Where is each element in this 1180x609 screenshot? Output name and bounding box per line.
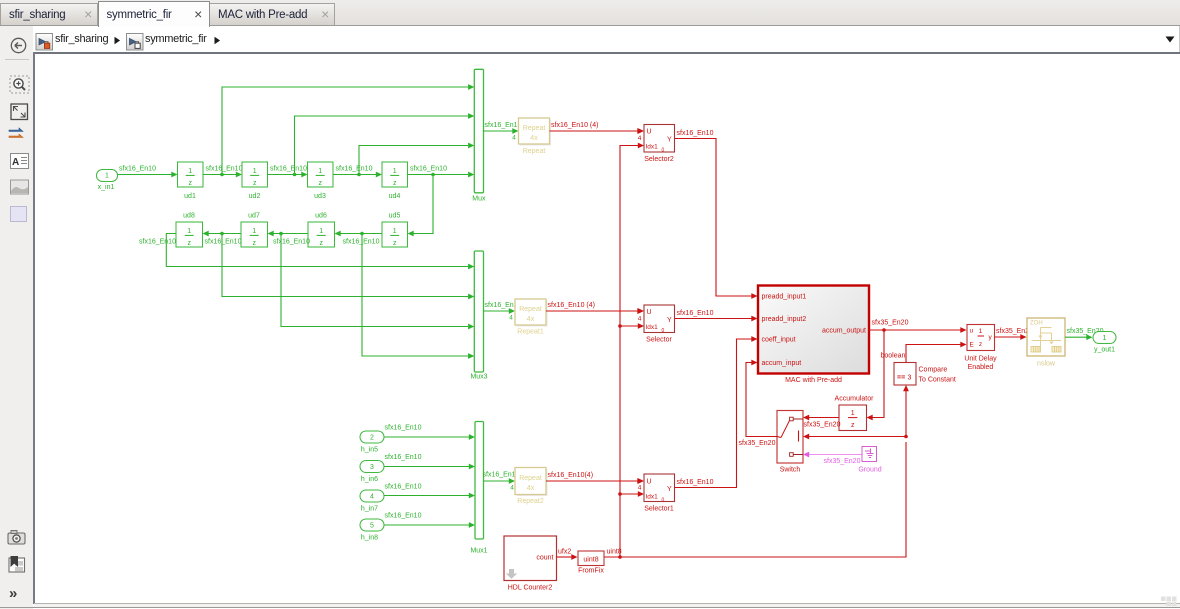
- svg-text:sfx16_En10: sfx16_En10: [483, 472, 520, 479]
- toolbar separator: [5, 59, 29, 61]
- svg-text:1: 1: [253, 168, 257, 175]
- svg-text:Y: Y: [667, 137, 672, 144]
- svg-text:ud6: ud6: [315, 213, 327, 220]
- svg-text:1: 1: [393, 228, 397, 235]
- svg-text:Mux1: Mux1: [470, 548, 487, 555]
- svg-text:1: 1: [105, 173, 109, 180]
- svg-text:Unit Delay: Unit Delay: [964, 356, 997, 363]
- svg-text:h_in6: h_in6: [361, 476, 378, 483]
- wire Selector1 output to MAC coeff_input: [675, 336, 758, 487]
- svg-text:1: 1: [319, 228, 323, 235]
- svg-text:Y: Y: [667, 486, 672, 493]
- unit delay ud3: [308, 162, 334, 200]
- unit delay ud8: [176, 213, 203, 248]
- svg-text:3: 3: [908, 375, 912, 382]
- wire ud6 to ud7: [268, 231, 311, 246]
- svg-text:Idx1: Idx1: [646, 144, 659, 151]
- svg-text:ufx2: ufx2: [558, 549, 571, 556]
- wire HDL Counter2 to FromFix: [557, 549, 578, 560]
- ground block Ground: [858, 447, 881, 474]
- svg-text:sfx16_En10: sfx16_En10: [270, 166, 307, 173]
- switch block Switch: [777, 411, 803, 474]
- svg-text:Mux: Mux: [472, 196, 486, 203]
- svg-text:count: count: [536, 555, 553, 562]
- wire count index bus vertical: [620, 146, 638, 558]
- svg-text:z: z: [851, 422, 855, 429]
- wire Repeat1 to Selector: [546, 302, 644, 314]
- svg-text:accum_output: accum_output: [822, 328, 866, 335]
- svg-text:sfx16_En10: sfx16_En10: [677, 130, 714, 137]
- input port h_in6: [360, 461, 384, 484]
- accumulator block Accumulator: [835, 396, 875, 431]
- svg-text:HDL Counter2: HDL Counter2: [508, 585, 553, 592]
- junction tap after ud4: [431, 173, 435, 177]
- svg-text:4: 4: [638, 485, 642, 492]
- wire accum_output down to Accumulator: [867, 330, 885, 420]
- svg-text:z: z: [393, 240, 397, 247]
- mux Mux: [472, 69, 486, 202]
- svg-text:z: z: [188, 180, 192, 187]
- svg-text:4x: 4x: [530, 135, 538, 142]
- svg-text:1: 1: [851, 410, 855, 417]
- breadcrumb arrow 1: [115, 37, 121, 44]
- unit delay ud4: [382, 162, 408, 200]
- wire tap3 up to Mux input 3: [359, 143, 474, 175]
- svg-text:Repeat: Repeat: [523, 148, 546, 155]
- mux Mux3: [470, 251, 487, 381]
- repeat block Repeat: [519, 118, 552, 155]
- breadcrumb text sfir_sharing: [55, 33, 108, 45]
- wire h_in7 to Mux1 input 3: [384, 484, 475, 499]
- breadcrumb model icon 2: [127, 34, 144, 51]
- canvas top border: [33, 52, 1180, 54]
- svg-text:sfx16_En10 (4): sfx16_En10 (4): [548, 302, 595, 309]
- wire tap down to Mux3 input 4: [362, 234, 474, 359]
- repeat block Repeat2: [515, 468, 548, 506]
- toolbar camera icon: [8, 531, 25, 545]
- toolbar back button: [11, 38, 25, 52]
- svg-text:3: 3: [370, 464, 374, 471]
- subsystem MAC with Pre-add: [758, 286, 869, 385]
- svg-text:ud5: ud5: [389, 213, 401, 220]
- svg-text:»: »: [9, 585, 17, 602]
- svg-text:uint8: uint8: [583, 557, 598, 564]
- svg-text:4: 4: [510, 485, 514, 492]
- svg-text:z: z: [319, 240, 323, 247]
- svg-text:sfx35_En20: sfx35_En20: [824, 458, 861, 465]
- svg-text:U: U: [647, 129, 652, 136]
- wire h_in5 to Mux1 input 1: [384, 425, 475, 440]
- svg-text:4: 4: [638, 316, 642, 323]
- svg-text:Mux3: Mux3: [470, 374, 487, 381]
- junction tap after ud3: [357, 173, 361, 177]
- wire ud8 output to Mux3 input 1: [139, 234, 474, 270]
- svg-text:sfx16_En10: sfx16_En10: [677, 479, 714, 486]
- svg-text:sfx16_En10: sfx16_En10: [677, 310, 714, 317]
- svg-text:4: 4: [370, 494, 374, 501]
- svg-text:z: z: [979, 341, 982, 348]
- svg-text:Selector2: Selector2: [644, 156, 674, 163]
- wire Accumulator to Switch input 1: [803, 415, 841, 429]
- junction accum_output: [882, 328, 886, 332]
- breadcrumb dropdown arrow: [1166, 37, 1175, 43]
- unit delay ud7: [241, 213, 268, 248]
- window bottom border: [0, 607, 1180, 608]
- svg-text:0: 0: [662, 498, 665, 504]
- svg-text:z: z: [253, 180, 257, 187]
- svg-text:ud4: ud4: [389, 193, 401, 200]
- input port x_in1: [97, 170, 118, 192]
- breadcrumb model icon 1: [36, 34, 53, 51]
- svg-text:1: 1: [318, 168, 322, 175]
- svg-text:sfx16_En10(4): sfx16_En10(4): [548, 472, 594, 479]
- toolbar fit-to-view icon: [11, 104, 28, 120]
- wire count to Switch control input: [803, 434, 906, 440]
- breadcrumb bar: [33, 26, 1180, 52]
- active tab symmetric_fir: [98, 1, 210, 27]
- svg-text:sfx16_En10: sfx16_En10: [205, 239, 242, 246]
- svg-text:FromFix: FromFix: [578, 568, 604, 575]
- wire nslow to y_out1: [1065, 328, 1104, 340]
- selector Selector: [638, 305, 675, 344]
- wire x_in1 to ud1: [118, 166, 178, 178]
- resize grip: [1161, 597, 1177, 607]
- wire Switch output to MAC accum_input: [739, 360, 778, 447]
- wire Repeat2 to Selector1: [546, 472, 644, 484]
- svg-text:4x: 4x: [527, 485, 535, 492]
- svg-text:h_in7: h_in7: [361, 506, 378, 513]
- svg-text:sfx16_En10: sfx16_En10: [119, 166, 156, 173]
- svg-text:1: 1: [188, 168, 192, 175]
- svg-text:ud1: ud1: [184, 193, 196, 200]
- wire Mux output to Repeat: [484, 122, 522, 142]
- svg-text:Selector: Selector: [646, 337, 672, 344]
- wire count from FromFix: [604, 442, 906, 557]
- unit delay ud2: [242, 162, 268, 200]
- svg-text:Repeat1: Repeat1: [517, 329, 544, 336]
- svg-text:sfx35_En20: sfx35_En20: [739, 440, 776, 447]
- converter block FromFix: [578, 551, 604, 575]
- tab bar: [0, 0, 1180, 26]
- svg-text:ud7: ud7: [248, 213, 260, 220]
- wire h_in8 to Mux1 input 4: [384, 513, 475, 528]
- svg-text:MAC with Pre-add: MAC with Pre-add: [785, 377, 842, 384]
- svg-text:1: 1: [1103, 335, 1107, 342]
- unit delay ud6: [308, 213, 335, 248]
- rate transition block nslow: [1027, 318, 1065, 368]
- junction count at switch branch: [904, 435, 908, 439]
- junction idx Selector1: [618, 492, 622, 496]
- svg-text:U: U: [647, 479, 652, 486]
- wire accum_output to Unit Delay Enabled: [869, 320, 967, 333]
- svg-text:accum_input: accum_input: [762, 360, 802, 367]
- wire Compare boolean to Unit Delay Enabled enable: [881, 342, 967, 363]
- canvas left border: [33, 52, 35, 604]
- svg-text:4: 4: [638, 135, 642, 142]
- junction tap between ud5 and ud6: [360, 232, 364, 236]
- svg-text:z: z: [318, 180, 322, 187]
- svg-text:sfx16_En10: sfx16_En10: [206, 166, 243, 173]
- unit delay ud5: [382, 213, 408, 248]
- unit delay enabled block: [964, 325, 997, 372]
- wire tap2 up to Mux input 2: [295, 113, 475, 174]
- svg-text:Enabled: Enabled: [968, 364, 994, 371]
- wire ud1 to ud2: [203, 166, 243, 178]
- svg-text:uint8: uint8: [607, 549, 622, 556]
- wire Mux1 output to Repeat2: [483, 472, 520, 492]
- svg-text:sfx16_En10: sfx16_En10: [273, 239, 310, 246]
- svg-text:sfx16_En10: sfx16_En10: [385, 454, 422, 461]
- input port h_in7: [360, 490, 384, 513]
- svg-text:nslow: nslow: [1037, 361, 1056, 368]
- tab MAC with Pre-add: [209, 3, 335, 25]
- selector Selector1: [638, 474, 675, 513]
- svg-text:sfx16_En10: sfx16_En10: [410, 166, 447, 173]
- svg-text:4x: 4x: [527, 316, 535, 323]
- svg-text:1: 1: [979, 328, 983, 335]
- svg-text:preadd_input1: preadd_input1: [762, 294, 807, 301]
- svg-text:E: E: [970, 342, 975, 349]
- svg-text:Repeat2: Repeat2: [517, 498, 544, 505]
- repeat block Repeat1: [515, 299, 548, 336]
- wire ud7 to ud8: [203, 231, 242, 246]
- svg-text:Ground: Ground: [858, 467, 881, 474]
- junction tap after ud2: [293, 173, 297, 177]
- wire Mux3 output to Repeat1: [484, 302, 522, 322]
- svg-text:4: 4: [512, 135, 516, 142]
- wire h_in6 to Mux1 input 2: [384, 454, 475, 469]
- wire tap down to Mux3 input 3: [281, 234, 474, 330]
- svg-text:Idx1: Idx1: [646, 324, 659, 331]
- svg-text:sfx35_En20: sfx35_En20: [872, 320, 909, 327]
- compare block Compare To Constant: [894, 363, 956, 386]
- toolbar update-diagram icon (two arrows): [9, 128, 23, 138]
- wire tap down to Mux3 input 2: [222, 234, 474, 300]
- svg-text:Repeat: Repeat: [519, 475, 542, 482]
- junction tap between ud7 and ud8: [220, 232, 224, 236]
- mux Mux1: [470, 422, 487, 555]
- svg-text:A: A: [12, 157, 19, 168]
- svg-text:sfx16_En10: sfx16_En10: [385, 513, 422, 520]
- tab sfir_sharing: [0, 3, 98, 25]
- svg-text:Compare: Compare: [919, 367, 948, 374]
- svg-text:4: 4: [509, 315, 513, 322]
- wire Repeat to Selector2: [550, 122, 644, 134]
- junction tap between ud6 and ud7: [279, 232, 283, 236]
- svg-text:z: z: [393, 180, 397, 187]
- svg-text:Y: Y: [667, 317, 672, 324]
- wire Selector2 output to MAC preadd_input1: [675, 130, 758, 299]
- svg-text:1: 1: [187, 228, 191, 235]
- toolbar viewmarks icon: [9, 556, 25, 572]
- output port y_out1: [1093, 332, 1116, 354]
- wire count up to Compare input: [903, 385, 909, 437]
- wire Ground to Switch input 3: [803, 452, 862, 465]
- svg-text:Switch: Switch: [780, 467, 801, 474]
- svg-text:z: z: [187, 240, 191, 247]
- input port h_in5: [360, 431, 384, 454]
- wire Selector output to MAC preadd_input2: [675, 310, 758, 321]
- svg-text:h_in5: h_in5: [361, 447, 378, 454]
- svg-text:0: 0: [662, 328, 665, 334]
- svg-text:1: 1: [393, 168, 397, 175]
- svg-text:1: 1: [252, 228, 256, 235]
- svg-text:sfx16_En10: sfx16_En10: [385, 425, 422, 432]
- svg-text:ud8: ud8: [183, 213, 195, 220]
- svg-text:ud3: ud3: [314, 193, 326, 200]
- wire tap1 up to Mux input 1: [222, 84, 474, 174]
- counter block HDL Counter2: [504, 536, 557, 592]
- svg-text:ZOH: ZOH: [1030, 321, 1043, 327]
- svg-text:sfx16_En10: sfx16_En10: [385, 484, 422, 491]
- wire ud4 to Mux input 4: [408, 166, 475, 178]
- svg-text:Selector1: Selector1: [644, 506, 674, 513]
- wire ud3 to ud4: [333, 166, 382, 178]
- svg-text:sfx16_En10 (4): sfx16_En10 (4): [551, 122, 598, 129]
- svg-text:Repeat: Repeat: [519, 306, 542, 313]
- breadcrumb arrow 2: [215, 37, 221, 44]
- svg-text:y_out1: y_out1: [1094, 347, 1115, 354]
- svg-text:boolean: boolean: [881, 353, 906, 360]
- svg-text:2: 2: [370, 435, 374, 442]
- junction idx count line: [618, 555, 622, 559]
- selector Selector2: [638, 125, 675, 164]
- toolbar annotation icon: [11, 154, 29, 169]
- canvas bottom line: [34, 603, 1180, 604]
- wire tap down to ud5: [408, 175, 434, 237]
- wire ud2 to ud3: [268, 166, 308, 178]
- toolbar area icon (lavender square): [11, 207, 27, 222]
- svg-text:sfx16_En10: sfx16_En10: [139, 239, 176, 246]
- svg-text:preadd_input2: preadd_input2: [762, 316, 807, 323]
- wire ud5 to ud6: [335, 231, 383, 246]
- svg-text:ud2: ud2: [249, 193, 261, 200]
- svg-text:sfx16_En10: sfx16_En10: [485, 122, 522, 129]
- svg-text:5: 5: [370, 523, 374, 530]
- svg-text:Idx1: Idx1: [646, 494, 659, 501]
- svg-text:To Constant: To Constant: [919, 377, 956, 384]
- svg-text:==: ==: [897, 375, 905, 382]
- svg-text:Accumulator: Accumulator: [835, 396, 875, 403]
- toolbar image icon: [11, 180, 29, 194]
- breadcrumb text symmetric_fir: [145, 33, 207, 45]
- svg-text:sfx16_En10: sfx16_En10: [343, 239, 380, 246]
- junction idx Selector: [618, 324, 622, 328]
- canvas bottom strip: [34, 604, 1180, 607]
- svg-text:Repeat: Repeat: [523, 125, 546, 132]
- unit delay ud1: [178, 162, 204, 200]
- svg-text:coeff_input: coeff_input: [762, 337, 796, 344]
- junction tap after ud1: [220, 173, 224, 177]
- svg-text:u: u: [970, 328, 974, 335]
- wire Unit Delay Enabled to nslow: [995, 328, 1034, 340]
- svg-text:h_in8: h_in8: [361, 535, 378, 542]
- svg-text:0: 0: [662, 148, 665, 154]
- input port h_in8: [360, 519, 384, 542]
- svg-text:sfx35_En20: sfx35_En20: [804, 422, 841, 429]
- toolbar zoom-to-region icon: [10, 76, 29, 93]
- svg-text:U: U: [647, 309, 652, 316]
- svg-text:x_in1: x_in1: [98, 184, 115, 191]
- svg-text:sfx16_En10: sfx16_En10: [336, 166, 373, 173]
- left toolbar strip: [0, 26, 33, 609]
- svg-text:z: z: [252, 240, 256, 247]
